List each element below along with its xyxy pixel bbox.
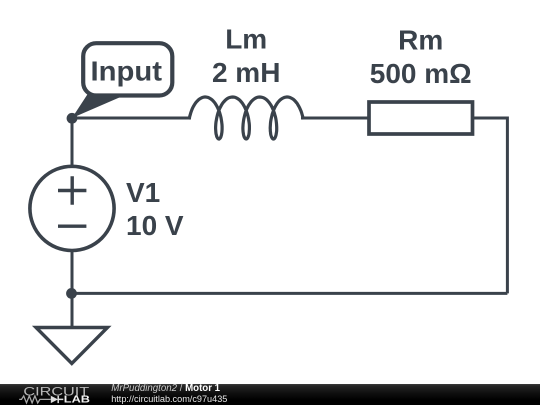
svg-text:2 mH: 2 mH — [212, 57, 280, 88]
callout tail — [72, 94, 129, 119]
svg-text:Lm: Lm — [225, 24, 267, 55]
node A junction dot — [67, 113, 78, 124]
inductor Lm coil — [189, 97, 303, 139]
resistor Rm body — [369, 102, 473, 134]
wire inductor to resistor — [301, 117, 370, 120]
svg-text:LAB: LAB — [64, 395, 90, 405]
bottom junction dot — [66, 288, 77, 299]
logo diode symbol — [51, 396, 58, 403]
callout Input bubble — [83, 43, 172, 95]
svg-text:10 V: 10 V — [126, 210, 184, 241]
voltage source V1 circle — [30, 166, 114, 250]
svg-text:Rm: Rm — [398, 25, 443, 56]
footer author / title line — [111, 383, 220, 394]
svg-text:Input: Input — [91, 56, 163, 87]
wire V1 bottom through node to ground — [71, 251, 74, 328]
wire node A down to V1 top — [71, 118, 74, 166]
svg-text:500 mΩ: 500 mΩ — [370, 58, 472, 89]
footer url line — [111, 394, 227, 404]
wire resistor to top-right corner and down — [471, 118, 507, 293]
wire bottom return — [72, 292, 508, 295]
svg-text:V1: V1 — [126, 177, 160, 208]
wire node A to inductor — [72, 117, 191, 120]
V1 minus sign — [58, 224, 86, 227]
ground symbol — [36, 328, 108, 364]
logo resistor zigzag — [19, 396, 51, 403]
CircuitLab logo — [0, 381, 115, 405]
V1 plus sign — [58, 176, 86, 204]
footer bar — [0, 384, 540, 405]
